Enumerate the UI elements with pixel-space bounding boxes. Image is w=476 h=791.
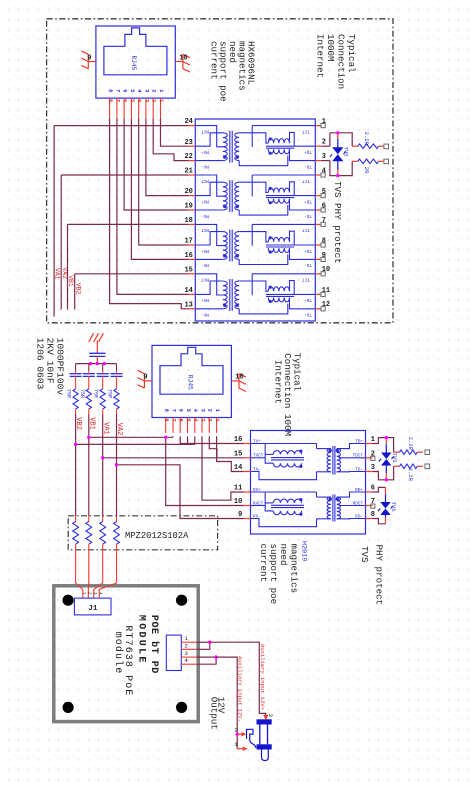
svg-text:5: 5 — [185, 409, 191, 412]
svg-text:MX+: MX+ — [201, 248, 209, 253]
svg-text:2.2R: 2.2R — [407, 437, 414, 451]
svg-text:TD-: TD- — [304, 312, 312, 317]
svg-text:8: 8 — [371, 511, 375, 519]
svg-text:VB1: VB1 — [87, 417, 95, 430]
svg-text:TVS: TVS — [391, 453, 398, 464]
svg-text:2.2R: 2.2R — [407, 468, 414, 482]
svg-text:75R: 75R — [66, 389, 72, 398]
svg-text:POE bT PD: POE bT PD — [148, 615, 160, 674]
svg-text:PHY protect: PHY protect — [374, 545, 385, 606]
svg-text:6: 6 — [122, 99, 128, 102]
svg-text:1000M: 1000M — [325, 34, 336, 62]
svg-text:75R: 75R — [79, 389, 85, 398]
svg-text:7: 7 — [170, 418, 176, 421]
svg-text:3: 3 — [322, 153, 326, 161]
svg-text:7: 7 — [371, 498, 375, 506]
svg-text:MX+: MX+ — [201, 297, 209, 302]
svg-text:VA1: VA1 — [54, 268, 61, 280]
svg-text:Output: Output — [208, 697, 219, 730]
svg-text:4: 4 — [192, 409, 198, 412]
svg-text:6: 6 — [178, 409, 184, 412]
svg-text:RJ45: RJ45 — [186, 375, 193, 390]
svg-text:TD-: TD- — [304, 163, 312, 168]
svg-text:1: 1 — [234, 741, 238, 748]
svg-text:9: 9 — [143, 374, 147, 382]
svg-text:TCT: TCT — [302, 178, 310, 183]
svg-text:Auxiliary input 12V-: Auxiliary input 12V- — [236, 656, 243, 722]
svg-text:Typical: Typical — [346, 34, 357, 73]
svg-text:Connection: Connection — [335, 34, 346, 89]
svg-text:J1: J1 — [88, 605, 98, 613]
svg-text:2: 2 — [371, 450, 375, 458]
svg-text:8: 8 — [107, 89, 113, 92]
svg-text:16: 16 — [234, 436, 242, 444]
svg-text:3: 3 — [199, 418, 205, 421]
svg-text:11: 11 — [234, 485, 242, 493]
svg-text:2: 2 — [207, 409, 213, 412]
svg-text:7: 7 — [114, 99, 120, 102]
svg-text:5: 5 — [129, 89, 135, 92]
svg-text:current: current — [208, 41, 219, 80]
svg-text:MX+: MX+ — [201, 198, 209, 203]
svg-text:2R: 2R — [363, 167, 370, 174]
svg-text:H2019: H2019 — [300, 541, 308, 561]
svg-text:5: 5 — [185, 418, 191, 421]
svg-text:MCT: MCT — [201, 128, 209, 133]
svg-text:TVS: TVS — [359, 546, 370, 563]
svg-text:8: 8 — [163, 418, 169, 421]
svg-text:TVS: TVS — [390, 502, 397, 513]
svg-text:VA2: VA2 — [61, 267, 68, 279]
svg-text:2: 2 — [322, 139, 326, 147]
svg-text:TD+: TD+ — [304, 297, 312, 302]
svg-text:current: current — [258, 544, 269, 583]
svg-text:10: 10 — [179, 54, 187, 62]
svg-text:9: 9 — [238, 511, 242, 519]
svg-text:1: 1 — [214, 409, 220, 412]
svg-text:3: 3 — [199, 409, 205, 412]
svg-text:MX-: MX- — [201, 312, 209, 317]
svg-text:3: 3 — [143, 99, 149, 102]
svg-text:Internet: Internet — [315, 34, 326, 78]
svg-text:1: 1 — [158, 89, 164, 92]
svg-text:12: 12 — [322, 301, 330, 309]
svg-text:TVS: TVS — [343, 147, 350, 158]
svg-text:9: 9 — [87, 54, 91, 62]
svg-text:2: 2 — [207, 418, 213, 421]
svg-text:RJ45: RJ45 — [130, 56, 137, 71]
svg-text:4: 4 — [136, 99, 142, 102]
svg-text:MX+: MX+ — [201, 149, 209, 154]
svg-text:TD-: TD- — [304, 213, 312, 218]
svg-text:15: 15 — [234, 450, 242, 458]
svg-text:MCT: MCT — [201, 277, 209, 282]
svg-text:TD+: TD+ — [304, 248, 312, 253]
svg-text:5: 5 — [129, 99, 135, 102]
svg-text:11: 11 — [322, 287, 330, 295]
svg-text:MODULE: MODULE — [136, 615, 147, 665]
svg-text:75R: 75R — [93, 389, 99, 398]
svg-text:MCT: MCT — [201, 227, 209, 232]
svg-text:3: 3 — [267, 714, 274, 718]
svg-text:module: module — [112, 632, 124, 675]
svg-text:10: 10 — [322, 266, 330, 274]
svg-text:MCT: MCT — [201, 178, 209, 183]
svg-text:TD+: TD+ — [304, 198, 312, 203]
svg-text:6: 6 — [178, 418, 184, 421]
svg-text:VB2: VB2 — [74, 283, 81, 295]
svg-text:Internet: Internet — [273, 360, 284, 404]
svg-text:7: 7 — [114, 89, 120, 92]
svg-text:2: 2 — [234, 727, 238, 734]
svg-text:VA2: VA2 — [115, 423, 123, 436]
svg-text:10: 10 — [234, 498, 242, 506]
svg-text:MX-: MX- — [201, 163, 209, 168]
svg-text:8: 8 — [163, 409, 169, 412]
svg-text:MPZ2012S102A: MPZ2012S102A — [125, 531, 189, 541]
svg-text:2: 2 — [185, 642, 188, 649]
svg-text:TD-: TD- — [304, 262, 312, 267]
svg-text:8: 8 — [107, 99, 113, 102]
svg-text:3: 3 — [185, 650, 188, 657]
svg-text:TCT: TCT — [302, 128, 310, 133]
svg-text:VB2: VB2 — [74, 417, 82, 430]
svg-text:TCT: TCT — [302, 227, 310, 232]
svg-text:1: 1 — [158, 99, 164, 102]
svg-text:1: 1 — [214, 418, 220, 421]
svg-text:2: 2 — [151, 99, 157, 102]
svg-text:10: 10 — [235, 374, 243, 382]
svg-text:1206 0603: 1206 0603 — [34, 338, 45, 390]
svg-text:VB1: VB1 — [67, 275, 74, 287]
svg-text:14: 14 — [234, 464, 242, 472]
svg-text:MX-: MX- — [201, 213, 209, 218]
svg-text:TVS PHY protect: TVS PHY protect — [332, 181, 343, 264]
svg-text:7: 7 — [170, 409, 176, 412]
svg-text:6: 6 — [122, 89, 128, 92]
svg-text:75R: 75R — [107, 389, 113, 398]
svg-text:4: 4 — [192, 418, 198, 421]
svg-text:3: 3 — [143, 89, 149, 92]
svg-text:TCT: TCT — [302, 277, 310, 282]
svg-text:TD+: TD+ — [304, 149, 312, 154]
svg-text:Auxiliary input 12V+: Auxiliary input 12V+ — [259, 644, 266, 710]
svg-text:2: 2 — [151, 89, 157, 92]
svg-text:VA1: VA1 — [101, 422, 109, 435]
svg-text:2.2R: 2.2R — [363, 132, 370, 146]
svg-text:4: 4 — [136, 89, 142, 92]
svg-text:MX-: MX- — [201, 262, 209, 267]
